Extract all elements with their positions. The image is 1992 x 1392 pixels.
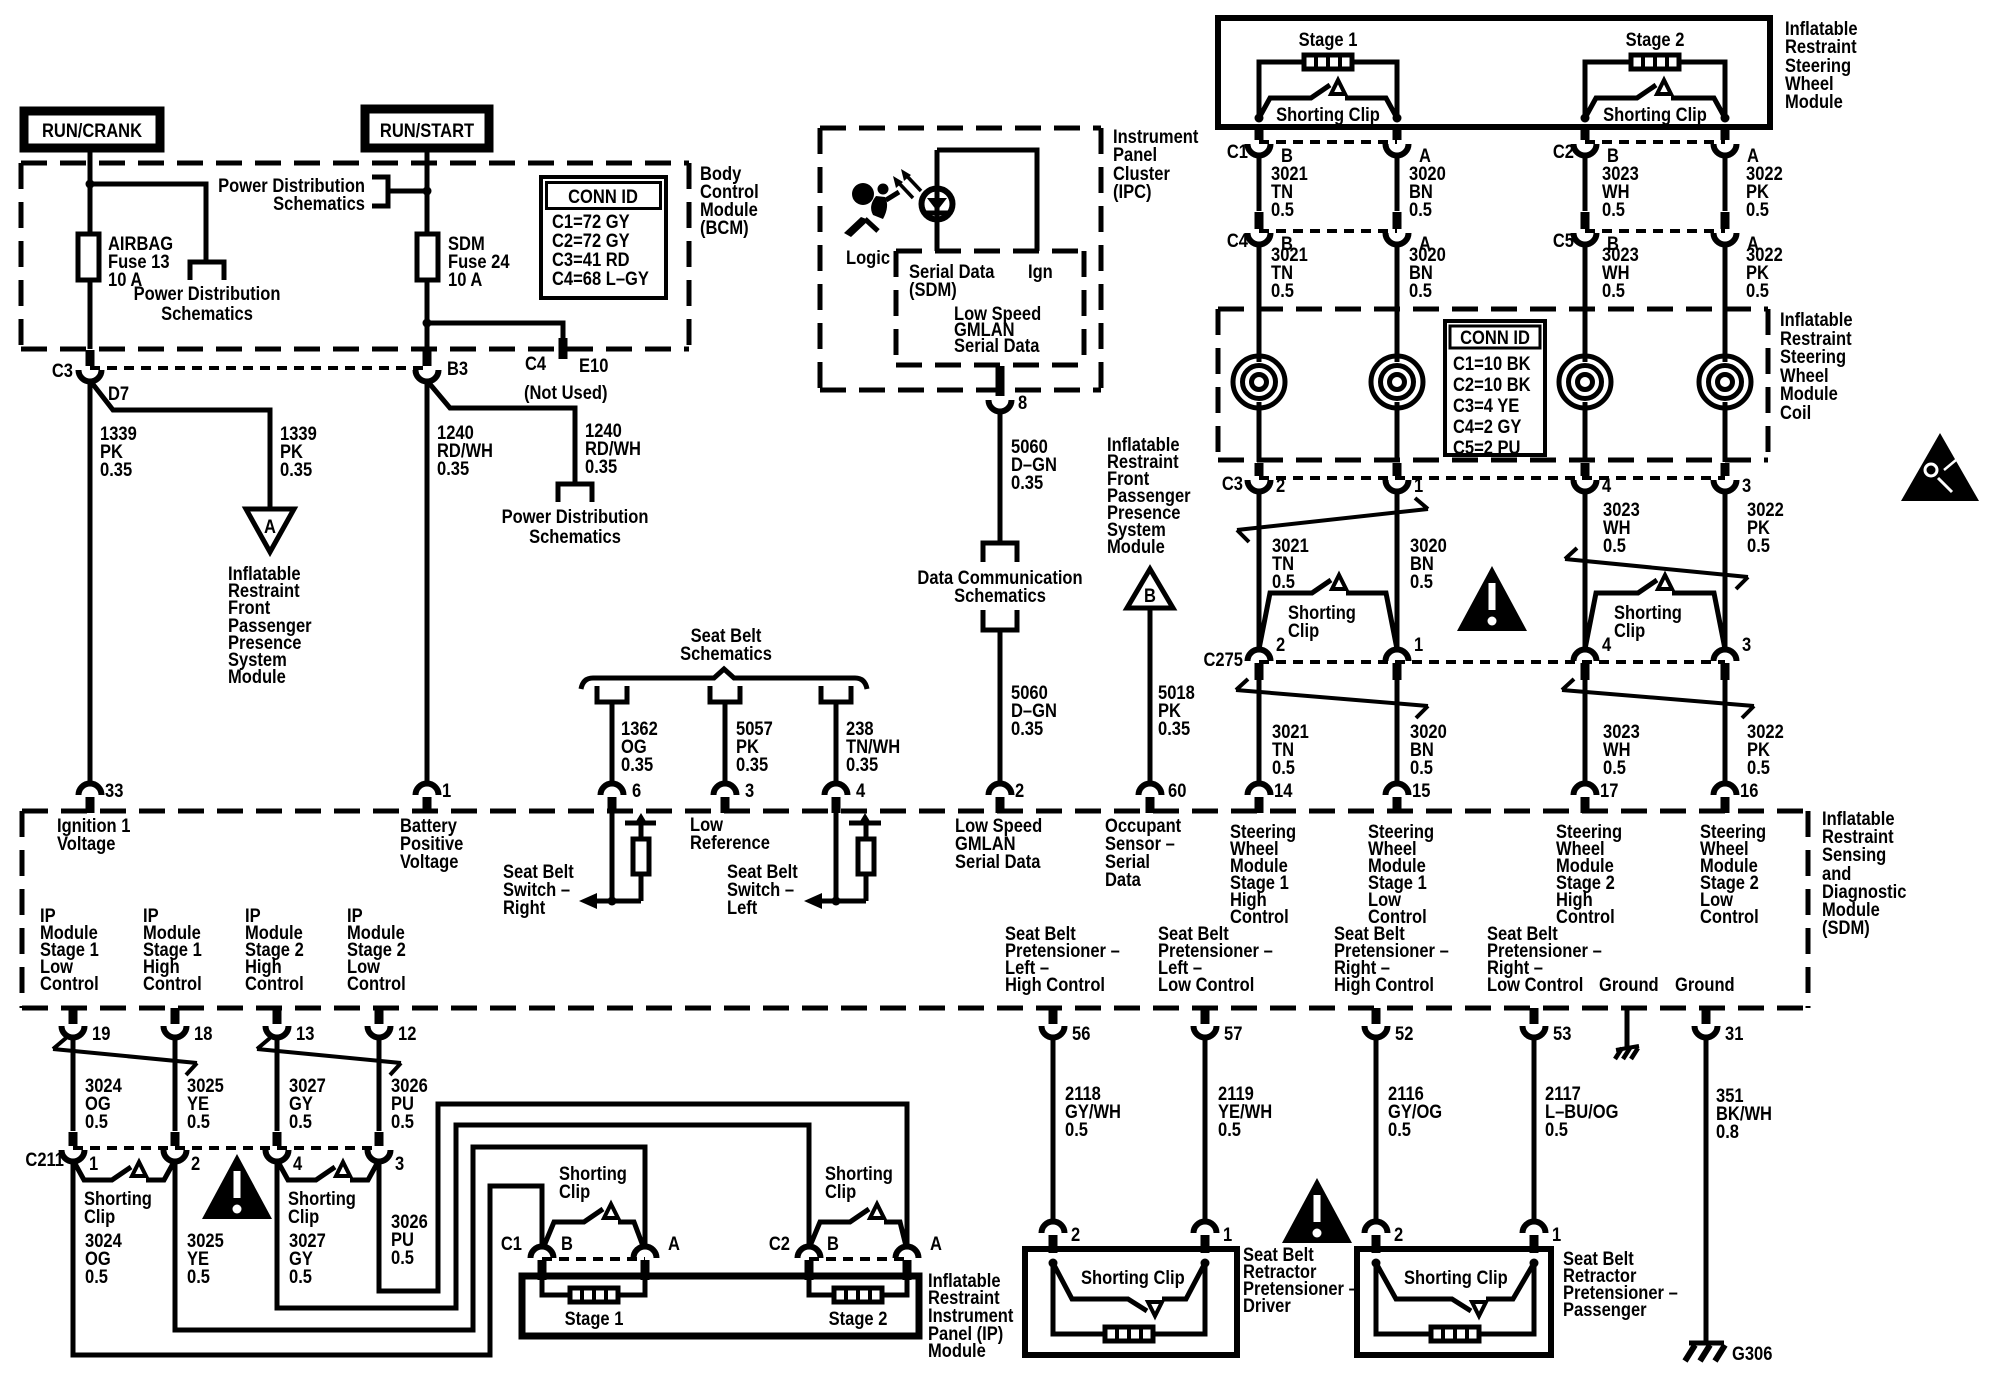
svg-text:1: 1	[1552, 1224, 1561, 1245]
svg-text:1: 1	[1414, 634, 1423, 655]
svg-text:Passenger: Passenger	[1563, 1299, 1647, 1320]
svg-text:B: B	[561, 1233, 573, 1254]
svg-text:0.5: 0.5	[1271, 199, 1294, 220]
svg-text:0.5: 0.5	[391, 1111, 414, 1132]
svg-text:Shorting Clip: Shorting Clip	[1404, 1267, 1508, 1288]
svg-text:Driver: Driver	[1243, 1295, 1291, 1316]
svg-text:1: 1	[442, 780, 451, 801]
svg-text:0.5: 0.5	[1272, 757, 1295, 778]
svg-text:(SDM): (SDM)	[909, 279, 957, 300]
svg-text:0.35: 0.35	[1011, 718, 1043, 739]
svg-text:57: 57	[1224, 1023, 1242, 1044]
svg-text:19: 19	[92, 1023, 110, 1044]
svg-text:(IPC): (IPC)	[1113, 181, 1152, 202]
svg-text:Control: Control	[1700, 906, 1759, 927]
svg-text:15: 15	[1412, 780, 1430, 801]
svg-text:Schematics: Schematics	[161, 303, 253, 324]
svg-text:(BCM): (BCM)	[700, 217, 749, 238]
svg-text:Stage 1: Stage 1	[1299, 29, 1358, 50]
svg-text:C2=10 BK: C2=10 BK	[1453, 374, 1531, 395]
svg-text:B: B	[1144, 585, 1156, 606]
svg-text:0.35: 0.35	[621, 754, 653, 775]
svg-text:0.5: 0.5	[1746, 280, 1769, 301]
svg-text:0.5: 0.5	[1545, 1119, 1568, 1140]
svg-text:Clip: Clip	[1614, 620, 1645, 641]
svg-text:8: 8	[1018, 392, 1027, 413]
svg-text:Control: Control	[245, 973, 304, 994]
svg-text:Voltage: Voltage	[400, 851, 459, 872]
svg-text:0.5: 0.5	[1409, 280, 1432, 301]
svg-text:Clip: Clip	[288, 1206, 319, 1227]
svg-text:Right: Right	[503, 897, 545, 918]
svg-text:0.5: 0.5	[1271, 280, 1294, 301]
svg-text:Left: Left	[727, 897, 757, 918]
svg-text:0.35: 0.35	[736, 754, 768, 775]
svg-text:Low Control: Low Control	[1487, 974, 1583, 995]
svg-text:0.5: 0.5	[1409, 199, 1432, 220]
svg-text:Module: Module	[1107, 536, 1165, 557]
svg-text:31: 31	[1725, 1023, 1743, 1044]
svg-text:0.35: 0.35	[1011, 472, 1043, 493]
svg-text:0.5: 0.5	[1747, 757, 1770, 778]
svg-text:Ground: Ground	[1599, 974, 1659, 995]
svg-text:2: 2	[1015, 780, 1024, 801]
svg-text:Schematics: Schematics	[273, 193, 365, 214]
svg-text:Power Distribution: Power Distribution	[502, 506, 649, 527]
svg-text:C1: C1	[501, 1233, 522, 1254]
svg-text:18: 18	[194, 1023, 212, 1044]
svg-text:3: 3	[1742, 634, 1751, 655]
svg-text:Control: Control	[347, 973, 406, 994]
svg-text:B: B	[827, 1233, 839, 1254]
svg-text:4: 4	[293, 1153, 302, 1174]
svg-text:Serial Data: Serial Data	[954, 335, 1040, 356]
svg-text:Stage 2: Stage 2	[1626, 29, 1685, 50]
svg-text:C2: C2	[769, 1233, 790, 1254]
svg-text:Control: Control	[143, 973, 202, 994]
svg-text:Reference: Reference	[690, 832, 770, 853]
svg-text:0.5: 0.5	[391, 1247, 414, 1268]
svg-text:Low Control: Low Control	[1158, 974, 1254, 995]
svg-text:1: 1	[89, 1153, 98, 1174]
svg-text:C4=68 L–GY: C4=68 L–GY	[552, 268, 649, 289]
svg-text:G306: G306	[1732, 1343, 1773, 1364]
svg-text:High Control: High Control	[1334, 974, 1434, 995]
svg-text:4: 4	[1602, 475, 1611, 496]
svg-text:14: 14	[1274, 780, 1292, 801]
svg-text:C1=10 BK: C1=10 BK	[1453, 353, 1531, 374]
svg-text:0.5: 0.5	[1746, 199, 1769, 220]
svg-text:Module: Module	[928, 1340, 986, 1361]
svg-text:13: 13	[296, 1023, 314, 1044]
svg-text:C275: C275	[1204, 649, 1244, 670]
svg-text:0.5: 0.5	[1410, 571, 1433, 592]
svg-text:0.5: 0.5	[1410, 757, 1433, 778]
svg-text:1: 1	[1223, 1224, 1232, 1245]
svg-text:0.5: 0.5	[1603, 535, 1626, 556]
svg-text:B3: B3	[447, 358, 468, 379]
svg-text:0.5: 0.5	[187, 1111, 210, 1132]
svg-text:2: 2	[191, 1153, 200, 1174]
svg-text:Power Distribution: Power Distribution	[134, 283, 281, 304]
svg-text:Ground: Ground	[1675, 974, 1735, 995]
svg-text:Schematics: Schematics	[954, 585, 1046, 606]
svg-text:12: 12	[398, 1023, 416, 1044]
svg-text:Shorting Clip: Shorting Clip	[1603, 104, 1707, 125]
svg-text:Logic: Logic	[846, 247, 890, 268]
svg-text:0.5: 0.5	[1602, 199, 1625, 220]
svg-text:0.5: 0.5	[85, 1111, 108, 1132]
svg-text:10 A: 10 A	[448, 269, 482, 290]
svg-text:2: 2	[1276, 475, 1285, 496]
svg-text:(SDM): (SDM)	[1822, 917, 1870, 938]
svg-text:0.35: 0.35	[280, 459, 312, 480]
svg-text:Shorting Clip: Shorting Clip	[1081, 1267, 1185, 1288]
svg-text:Stage 1: Stage 1	[565, 1308, 624, 1329]
svg-text:C4: C4	[525, 353, 546, 374]
svg-text:17: 17	[1600, 780, 1618, 801]
svg-text:Control: Control	[40, 973, 99, 994]
svg-text:4: 4	[1602, 634, 1611, 655]
svg-text:Clip: Clip	[559, 1181, 590, 1202]
svg-text:0.35: 0.35	[585, 456, 617, 477]
svg-text:Coil: Coil	[1780, 402, 1811, 423]
svg-text:(Not Used): (Not Used)	[524, 382, 608, 403]
svg-text:Shorting Clip: Shorting Clip	[1276, 104, 1380, 125]
svg-text:C4=2 GY: C4=2 GY	[1453, 416, 1522, 437]
svg-text:10 A: 10 A	[108, 269, 142, 290]
svg-text:0.5: 0.5	[1272, 571, 1295, 592]
svg-text:52: 52	[1395, 1023, 1413, 1044]
svg-text:A: A	[264, 516, 276, 537]
svg-text:Module: Module	[1785, 91, 1843, 112]
svg-text:C3: C3	[52, 360, 73, 381]
svg-text:0.5: 0.5	[1218, 1119, 1241, 1140]
svg-text:Serial Data: Serial Data	[955, 851, 1041, 872]
svg-text:C5=2 PU: C5=2 PU	[1453, 437, 1521, 458]
svg-text:3: 3	[745, 780, 754, 801]
svg-text:0.5: 0.5	[289, 1266, 312, 1287]
svg-text:Ign: Ign	[1028, 261, 1053, 282]
svg-text:0.5: 0.5	[1065, 1119, 1088, 1140]
svg-text:53: 53	[1553, 1023, 1571, 1044]
svg-text:1: 1	[1414, 475, 1423, 496]
svg-text:0.5: 0.5	[1747, 535, 1770, 556]
svg-text:2: 2	[1071, 1224, 1080, 1245]
svg-text:0.5: 0.5	[1603, 757, 1626, 778]
svg-text:0.35: 0.35	[100, 459, 132, 480]
svg-text:High Control: High Control	[1005, 974, 1105, 995]
svg-text:Schematics: Schematics	[680, 643, 772, 664]
svg-text:A: A	[930, 1233, 942, 1254]
svg-text:CONN ID: CONN ID	[1460, 327, 1530, 348]
svg-text:Voltage: Voltage	[57, 833, 116, 854]
svg-text:0.5: 0.5	[289, 1111, 312, 1132]
svg-text:Control: Control	[1230, 906, 1289, 927]
svg-text:Module: Module	[228, 666, 286, 687]
svg-text:2: 2	[1394, 1224, 1403, 1245]
svg-text:E10: E10	[579, 355, 608, 376]
svg-text:Data: Data	[1105, 869, 1142, 890]
svg-text:C3: C3	[1222, 473, 1243, 494]
svg-text:C3=4 YE: C3=4 YE	[1453, 395, 1519, 416]
svg-text:0.8: 0.8	[1716, 1121, 1739, 1142]
svg-text:0.5: 0.5	[1602, 280, 1625, 301]
svg-text:3: 3	[1742, 475, 1751, 496]
svg-text:RUN/START: RUN/START	[380, 120, 474, 141]
svg-text:D7: D7	[108, 383, 129, 404]
svg-text:60: 60	[1168, 780, 1186, 801]
svg-text:Clip: Clip	[84, 1206, 115, 1227]
svg-text:Stage 2: Stage 2	[829, 1308, 888, 1329]
svg-text:56: 56	[1072, 1023, 1090, 1044]
svg-text:0.5: 0.5	[187, 1266, 210, 1287]
svg-text:CONN ID: CONN ID	[568, 186, 638, 207]
svg-text:Schematics: Schematics	[529, 526, 621, 547]
svg-text:A: A	[668, 1233, 680, 1254]
svg-text:Clip: Clip	[1288, 620, 1319, 641]
svg-text:RUN/CRANK: RUN/CRANK	[42, 120, 142, 141]
svg-text:0.5: 0.5	[1388, 1119, 1411, 1140]
svg-text:33: 33	[105, 780, 123, 801]
svg-text:Clip: Clip	[825, 1181, 856, 1202]
svg-text:16: 16	[1740, 780, 1758, 801]
svg-text:C211: C211	[25, 1149, 64, 1170]
svg-text:0.35: 0.35	[437, 458, 469, 479]
svg-text:0.35: 0.35	[1158, 718, 1190, 739]
svg-text:4: 4	[856, 780, 865, 801]
svg-text:6: 6	[632, 780, 641, 801]
svg-text:2: 2	[1276, 634, 1285, 655]
svg-text:Control: Control	[1556, 906, 1615, 927]
svg-text:3: 3	[395, 1153, 404, 1174]
svg-text:0.35: 0.35	[846, 754, 878, 775]
svg-text:0.5: 0.5	[85, 1266, 108, 1287]
